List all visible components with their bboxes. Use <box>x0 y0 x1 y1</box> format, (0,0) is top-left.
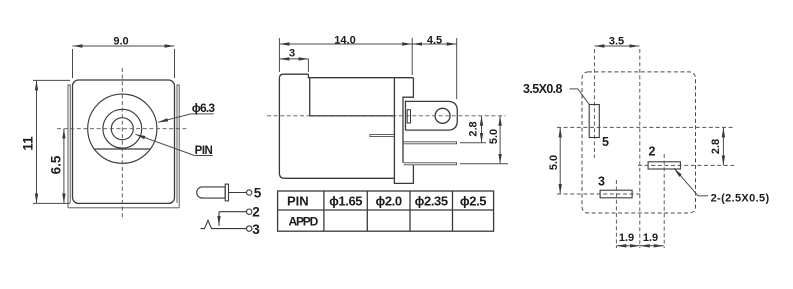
side body outline <box>279 74 413 178</box>
pin 2 (lower leg) <box>404 163 457 165</box>
pin 3 spring contact symbol <box>201 220 247 228</box>
svg-text:5.0: 5.0 <box>548 155 560 170</box>
dimension 5.0 (right view) <box>548 127 560 194</box>
pin 2 contact symbol <box>219 211 246 213</box>
svg-text:3.5: 3.5 <box>609 36 624 48</box>
lug hole circle <box>435 108 450 123</box>
dimension 1.9 right segment <box>640 232 664 246</box>
plate washer line <box>405 101 407 131</box>
svg-text:1.9: 1.9 <box>643 232 658 244</box>
svg-text:5.0: 5.0 <box>488 129 500 144</box>
internal contact tab <box>370 135 395 137</box>
svg-text:11: 11 <box>21 136 36 151</box>
label 3.5X0.8 with leader <box>523 82 589 105</box>
svg-text:ϕ1.65: ϕ1.65 <box>329 193 362 208</box>
switch arrow from pin 2 to pin 3 <box>218 212 220 226</box>
svg-text:APPD: APPD <box>289 214 319 228</box>
svg-text:3: 3 <box>289 48 295 60</box>
dimension 5.0 (middle) <box>460 116 508 164</box>
dimension 14.0 <box>279 34 456 99</box>
pad 3 <box>600 190 632 198</box>
pad 5 centerline dashed <box>593 49 595 158</box>
svg-text:2.8: 2.8 <box>710 139 722 154</box>
svg-text:PIN: PIN <box>287 193 309 208</box>
dashed body outline square <box>582 72 696 213</box>
svg-text:9.0: 9.0 <box>113 36 128 48</box>
front plate <box>394 78 413 184</box>
svg-text:14.0: 14.0 <box>334 34 355 46</box>
chord flat line <box>95 148 151 150</box>
svg-text:6.5: 6.5 <box>49 155 64 174</box>
dimension 9.0 line <box>73 36 175 79</box>
pad 2 row dashed line <box>638 164 734 166</box>
svg-text:4.5: 4.5 <box>427 34 442 46</box>
dimension 3 <box>279 48 308 73</box>
dimension 2.8 (right view) <box>710 127 723 165</box>
svg-text:1.9: 1.9 <box>619 232 634 244</box>
pad 2 centerline vertical <box>663 154 665 248</box>
dimension 11 line <box>21 80 71 203</box>
table grid <box>278 191 494 231</box>
left flange strip <box>68 85 70 208</box>
svg-text:ϕ6.3: ϕ6.3 <box>192 101 216 115</box>
svg-text:5: 5 <box>602 135 609 149</box>
solder lug with hole <box>406 101 457 130</box>
flange bottom edge <box>68 207 179 209</box>
pin 5 barrel symbol <box>197 187 226 198</box>
svg-text:5: 5 <box>254 185 262 200</box>
leader 2-(2.5X0.5) <box>674 168 769 204</box>
inner cavity step line <box>310 78 395 116</box>
svg-text:3: 3 <box>598 175 605 189</box>
dimension 3.5 <box>594 36 639 48</box>
horizontal centerline dashed <box>57 128 188 130</box>
pad 3 centerline vertical <box>615 180 617 248</box>
svg-text:ϕ2.35: ϕ2.35 <box>415 193 448 208</box>
vertical centerline <box>639 49 641 248</box>
front body rounded square <box>73 80 175 203</box>
outer circle <box>88 94 157 163</box>
svg-text:2: 2 <box>252 205 260 220</box>
dimension 6.5 line <box>49 129 64 204</box>
svg-text:PIN: PIN <box>195 145 213 157</box>
pad 5 <box>589 105 599 138</box>
svg-text:2.8: 2.8 <box>468 121 480 136</box>
dimension 2.8 (middle) <box>460 116 486 143</box>
pad 2 <box>648 162 680 169</box>
dimension 4.5 <box>412 34 457 46</box>
horizontal centerline <box>557 126 734 128</box>
svg-text:2: 2 <box>649 145 656 159</box>
middle circle <box>103 109 142 148</box>
svg-text:ϕ2.5: ϕ2.5 <box>460 193 486 208</box>
pin 1 (upper leg) <box>404 142 457 144</box>
small terminal rect on plate <box>407 110 410 123</box>
vertical centerline dashed <box>121 68 123 220</box>
leader PIN <box>135 134 212 157</box>
svg-text:3.5X0.8: 3.5X0.8 <box>523 82 563 96</box>
svg-text:ϕ2.0: ϕ2.0 <box>375 193 401 208</box>
svg-text:3: 3 <box>252 222 260 237</box>
right flange strip <box>177 85 179 208</box>
dimension 1.9 left segment <box>616 232 639 246</box>
pad 3 row dashed line <box>557 193 641 195</box>
leader Phi6.3 <box>158 101 215 122</box>
svg-text:2-(2.5X0.5): 2-(2.5X0.5) <box>711 193 770 205</box>
center axis dashed line <box>267 115 506 117</box>
inner circle (pin hole) <box>111 118 133 140</box>
